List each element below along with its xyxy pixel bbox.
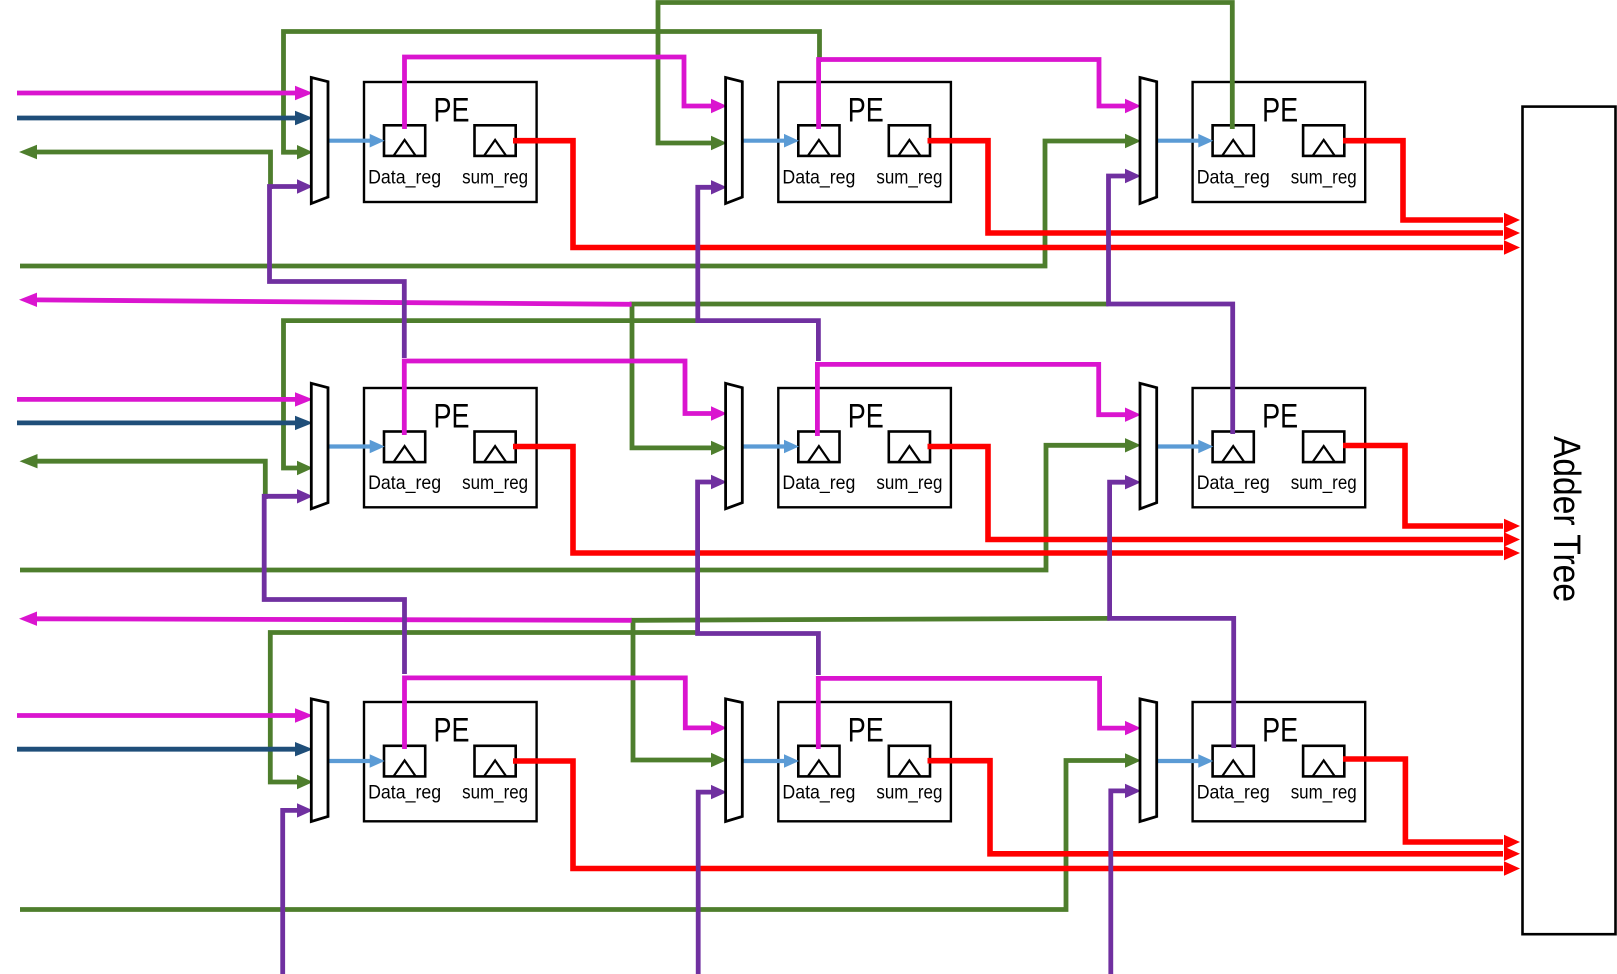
wire: bottom edge to mux(3,2) purple input xyxy=(698,785,727,974)
register Data_reg (3,1) xyxy=(368,746,441,804)
svg-text:PE: PE xyxy=(1262,711,1298,749)
PE block row1 col1 xyxy=(364,82,537,202)
mux (2,1) xyxy=(311,383,328,509)
wire: bottom edge to mux(3,3) purple input xyxy=(1111,784,1141,974)
register sum_reg (1,2) xyxy=(876,125,942,188)
svg-text:PE: PE xyxy=(1262,397,1298,435)
wire: Data_reg(2,2) to mux(2,3) magenta input xyxy=(817,364,1141,436)
register sum_reg (3,3) xyxy=(1291,746,1357,804)
input arrow row3 dark blue xyxy=(17,742,313,756)
register Data_reg (1,3) xyxy=(1197,125,1270,188)
wire: Data_reg(1,2) to mux(1,3) magenta input xyxy=(819,60,1141,130)
svg-text:sum_reg: sum_reg xyxy=(1291,166,1357,188)
mux (2,2) xyxy=(726,383,743,509)
wire: Data_reg(2,1) to mux(2,2) magenta input xyxy=(404,361,727,435)
input arrow row2 dark blue xyxy=(17,416,313,430)
svg-text:PE: PE xyxy=(434,711,470,749)
svg-text:sum_reg: sum_reg xyxy=(462,166,528,188)
input arrow row3 magenta xyxy=(17,708,313,722)
svg-text:Data_reg: Data_reg xyxy=(782,782,855,804)
wire: Data_reg(3,1) to mux(3,2) magenta input xyxy=(405,678,728,749)
wire: row gap1 magenta output to left edge xyxy=(19,293,632,307)
wire: mux(2,3) output to Data_reg (2,3) xyxy=(1156,440,1214,454)
PE block row1 col3 xyxy=(1193,82,1366,202)
wire: Data_reg(3,2) to mux(2,2) purple input xyxy=(698,475,819,675)
register sum_reg (3,2) xyxy=(876,746,942,804)
wire: mux(1,2) output to Data_reg (1,2) xyxy=(741,134,799,148)
wire: sum_reg(1,1) to adder tree xyxy=(513,141,1520,255)
wire: Data_reg(2,2) to mux(1,2) purple input xyxy=(698,180,819,361)
wire: Data_reg(2,3) tap to mux(2,2) green input xyxy=(632,304,1109,455)
register Data_reg (2,3) xyxy=(1197,432,1270,494)
wire: mux(3,2) output to Data_reg (3,2) xyxy=(741,754,799,768)
wire: mux(2,2) output to Data_reg (2,2) xyxy=(741,440,799,454)
mux (1,1) xyxy=(311,78,328,204)
register Data_reg (2,2) xyxy=(782,432,855,494)
mux (3,2) xyxy=(726,699,743,822)
wire: row gap2 magenta output to left edge xyxy=(19,612,632,626)
wire: Data_reg(3,3) to mux(2,3) purple input xyxy=(1110,475,1234,748)
wire: sum_reg(2,2) to adder tree xyxy=(928,447,1521,547)
wire: mux(1,3) output to Data_reg (1,3) xyxy=(1156,134,1214,148)
wire: Data_reg(3,2) to mux(3,3) magenta input xyxy=(818,678,1141,749)
register Data_reg (1,2) xyxy=(782,125,855,188)
wire: mux(2,1) output to Data_reg (2,1) xyxy=(327,440,385,454)
wire: mux(1,1) output to Data_reg (1,1) xyxy=(327,134,385,148)
PE block row2 col1 xyxy=(364,388,537,507)
PE block row2 col2 xyxy=(778,388,951,507)
wire: bottom edge to mux(3,1) purple input xyxy=(283,803,313,974)
svg-text:Data_reg: Data_reg xyxy=(368,782,441,804)
input arrow row1 magenta xyxy=(17,86,313,100)
PE block row1 col2 xyxy=(778,82,951,202)
svg-text:Data_reg: Data_reg xyxy=(368,166,441,188)
wire: mux(3,1) output to Data_reg (3,1) xyxy=(327,754,385,768)
PE block row3 col2 xyxy=(778,702,951,821)
adder tree block xyxy=(1523,107,1616,935)
input arrow row1 dark blue xyxy=(17,111,313,125)
register sum_reg (1,1) xyxy=(462,125,528,188)
svg-text:Data_reg: Data_reg xyxy=(1197,166,1270,188)
wire: Data_reg(2,2) tap to mux(2,1) green input xyxy=(284,321,698,476)
wire: left-edge line to mux(1,3) green input xyxy=(20,134,1141,266)
PE block row2 col3 xyxy=(1193,388,1366,507)
svg-text:sum_reg: sum_reg xyxy=(876,166,942,188)
svg-text:sum_reg: sum_reg xyxy=(1291,472,1357,494)
wire: sum_reg(3,2) to adder tree xyxy=(928,761,1521,861)
wire: sum_reg(1,2) to adder tree xyxy=(928,141,1521,241)
svg-text:PE: PE xyxy=(434,397,470,435)
wire: Data_reg(2,1) to mux(1,1) purple input xyxy=(270,179,405,358)
wire: Data_reg(3,3) tap to mux(3,2) green input xyxy=(633,618,1110,767)
register Data_reg (2,1) xyxy=(368,432,441,494)
register sum_reg (3,1) xyxy=(462,746,528,804)
register Data_reg (1,1) xyxy=(368,125,441,188)
wire: Data_reg(2,3) to mux(1,3) purple input xyxy=(1109,169,1233,434)
wire: Data_reg(1,1) to mux(1,2) magenta input xyxy=(405,57,728,129)
mux (1,3) xyxy=(1140,78,1157,204)
svg-text:Data_reg: Data_reg xyxy=(782,472,855,494)
svg-text:Data_reg: Data_reg xyxy=(782,166,855,188)
register sum_reg (1,3) xyxy=(1291,125,1357,188)
svg-text:sum_reg: sum_reg xyxy=(462,782,528,804)
register sum_reg (2,3) xyxy=(1291,432,1357,494)
wire: sum_reg(2,3) to adder tree xyxy=(1343,446,1520,534)
wire: sum_reg(2,1) to adder tree xyxy=(513,447,1520,561)
wire: sum_reg(3,3) to adder tree xyxy=(1343,759,1520,849)
svg-text:sum_reg: sum_reg xyxy=(876,782,942,804)
svg-text:Data_reg: Data_reg xyxy=(1197,472,1270,494)
mux (3,1) xyxy=(311,699,328,822)
register Data_reg (3,3) xyxy=(1197,746,1270,804)
svg-text:Adder Tree: Adder Tree xyxy=(1545,436,1587,602)
wire: row1 green output to left edge xyxy=(19,145,271,189)
wire: sum_reg(1,3) to adder tree xyxy=(1343,141,1520,228)
register sum_reg (2,2) xyxy=(876,432,942,494)
register Data_reg (3,2) xyxy=(782,746,855,804)
wire: left-edge line to mux(3,3) green input xyxy=(20,753,1141,909)
wire: left-edge line to mux(2,3) green input xyxy=(20,438,1141,570)
svg-text:PE: PE xyxy=(848,397,884,435)
input arrow row2 magenta xyxy=(17,392,313,406)
wire: Data_reg(1,2) to mux(1,1) green input xyxy=(284,32,820,160)
register sum_reg (2,1) xyxy=(462,432,528,494)
wire: Data_reg(3,1) to mux(2,1) purple input xyxy=(264,489,404,674)
svg-text:Data_reg: Data_reg xyxy=(368,472,441,494)
wire: mux(3,3) output to Data_reg (3,3) xyxy=(1156,754,1214,768)
wire: row2 green output to left edge xyxy=(20,454,266,499)
PE block row3 col1 xyxy=(364,702,537,821)
mux (2,3) xyxy=(1140,383,1157,509)
wire: Data_reg(3,2) tap to mux(3,1) green input xyxy=(270,633,696,790)
mux (3,3) xyxy=(1140,699,1157,822)
PE block row3 col3 xyxy=(1193,702,1366,821)
svg-text:sum_reg: sum_reg xyxy=(462,472,528,494)
mux (1,2) xyxy=(726,78,743,204)
svg-text:PE: PE xyxy=(848,91,884,129)
svg-text:PE: PE xyxy=(848,711,884,749)
wire: Data_reg(1,3) to mux(1,2) green input xyxy=(658,3,1232,151)
svg-text:sum_reg: sum_reg xyxy=(876,472,942,494)
wire: sum_reg(3,1) to adder tree xyxy=(513,761,1520,876)
svg-text:sum_reg: sum_reg xyxy=(1291,782,1357,804)
svg-text:PE: PE xyxy=(434,91,470,129)
svg-text:PE: PE xyxy=(1262,91,1298,129)
svg-text:Data_reg: Data_reg xyxy=(1197,782,1270,804)
